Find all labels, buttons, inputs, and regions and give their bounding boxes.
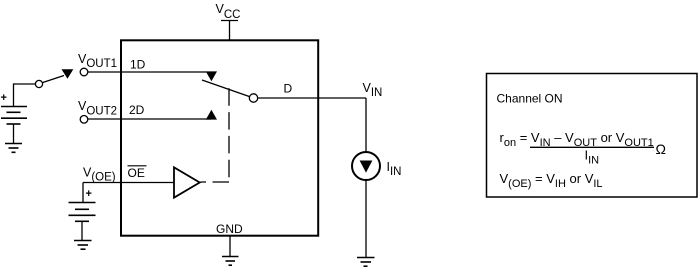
power rail VCC bar [221,20,238,22]
wire VCC to box [229,21,231,41]
wire current source to ground [365,180,367,258]
svg-text:D: D [284,81,293,95]
svg-text:Ω: Ω [656,141,666,157]
switch SW1 arrowhead [62,69,74,79]
svg-text:GND: GND [216,222,243,236]
wire VIN down to current source [365,98,367,152]
wire 1D [88,71,207,73]
terminal VOUT2 [80,116,88,124]
switch SW1 lever [42,76,64,83]
switch SW1 circle [35,80,42,87]
switch contact 1D (down triangle) [206,71,217,81]
ground symbol IIN [357,258,375,267]
wire battery B1 to switch [14,84,36,107]
svg-text:1D: 1D [130,58,146,72]
IC U1 box [121,40,318,235]
battery B2 [69,203,96,222]
wire OE input [83,182,174,184]
label OE overline [128,165,147,167]
current source arrow [360,161,373,173]
svg-text:OE: OE [128,166,145,180]
wire battery B2 to ground [81,221,83,240]
svg-text:+: + [86,188,92,200]
svg-text:2D: 2D [129,103,145,117]
svg-text:+: + [1,92,7,104]
switch pole lever [202,80,250,97]
dashed control line vertical [228,88,230,178]
ground symbol GND pin [222,257,239,266]
info box [487,74,698,198]
battery B1 [1,107,27,125]
terminal VOUT1 [80,68,88,76]
current source IIN [352,152,380,180]
dashed control line horizontal [201,181,230,183]
wire GND [229,236,231,257]
wire D to box edge [258,97,366,99]
switch pole circle D [249,94,257,102]
formula fraction bar [530,146,654,148]
buffer U2 [174,167,200,197]
ground symbol B1 [5,144,22,153]
wire battery B1 to ground [13,124,15,144]
svg-text:Channel ON: Channel ON [497,92,563,106]
ground symbol B2 [74,241,92,250]
switch contact 2D (up triangle) [206,110,217,120]
wire 2D [88,118,211,120]
wire battery B2 top [82,183,84,203]
